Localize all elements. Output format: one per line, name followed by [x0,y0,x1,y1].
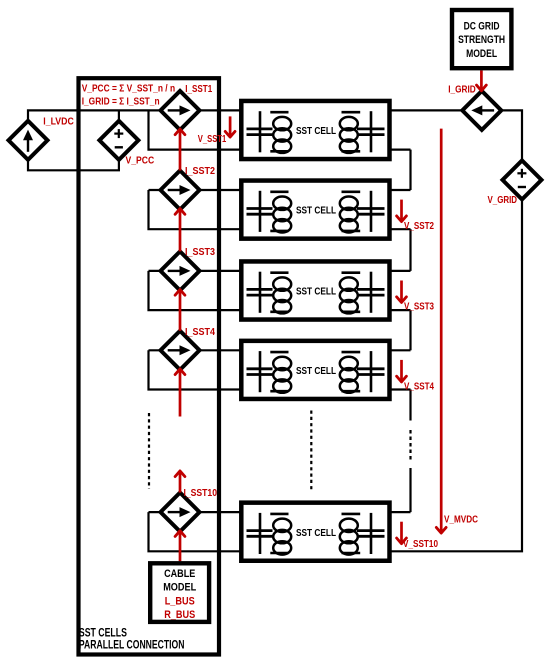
svg-text:I_GRID: I_GRID [448,84,476,95]
svg-text:R_BUS: R_BUS [164,609,195,621]
svg-text:DC GRID: DC GRID [464,21,500,33]
svg-text:SST CELL: SST CELL [296,528,336,539]
svg-text:SST CELL: SST CELL [296,287,336,298]
svg-text:V_PCC: V_PCC [126,156,155,167]
svg-text:SST CELL: SST CELL [296,206,336,217]
svg-text:V_PCC = Σ V_SST_n / n: V_PCC = Σ V_SST_n / n [82,84,175,95]
svg-text:I_LVDC: I_LVDC [43,117,74,128]
svg-text:PARALLEL CONNECTION: PARALLEL CONNECTION [79,638,185,652]
svg-text:V_SST4: V_SST4 [404,381,434,392]
svg-text:V_SST3: V_SST3 [404,302,434,313]
svg-text:I_SST2: I_SST2 [185,166,215,177]
svg-text:CABLE: CABLE [164,568,195,580]
svg-text:STRENGTH: STRENGTH [458,34,505,46]
svg-text:V_SST1: V_SST1 [198,134,227,145]
svg-text:I_GRID = Σ I_SST_n: I_GRID = Σ I_SST_n [82,96,160,107]
svg-text:I_SST4: I_SST4 [185,327,215,338]
svg-text:L_BUS: L_BUS [165,595,195,607]
svg-text:MODEL: MODEL [466,48,497,60]
svg-text:I_SST10: I_SST10 [184,488,218,499]
svg-text:V_GRID: V_GRID [488,195,518,206]
svg-text:V_SST10: V_SST10 [403,539,438,550]
svg-text:MODEL: MODEL [163,582,196,594]
svg-text:SST CELL: SST CELL [296,366,336,377]
svg-text:SST CELL: SST CELL [296,126,336,137]
svg-text:I_SST1: I_SST1 [185,84,212,95]
svg-text:I_SST3: I_SST3 [185,247,215,258]
svg-text:V_MVDC: V_MVDC [444,515,478,526]
svg-text:V_SST2: V_SST2 [404,221,434,232]
